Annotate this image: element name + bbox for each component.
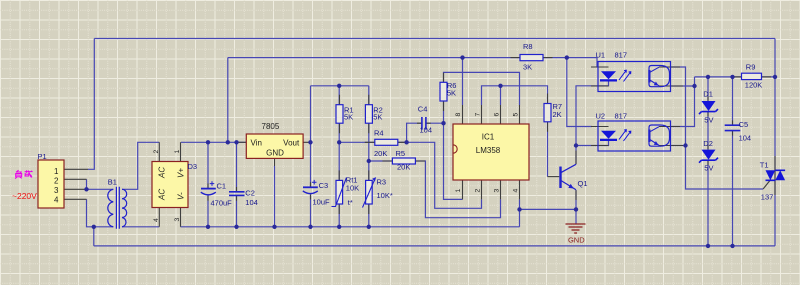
wire R5 left	[369, 160, 393, 162]
resistor R2	[365, 105, 372, 124]
svg-text:GND: GND	[568, 236, 585, 245]
zener D1	[702, 101, 716, 111]
capacitor C5	[725, 125, 741, 130]
zener D2	[702, 150, 716, 160]
optocoupler U1	[598, 62, 671, 92]
svg-text:817: 817	[615, 51, 628, 60]
wire R6 bottom	[443, 101, 445, 123]
wire R1 leads	[338, 86, 340, 181]
P1 pin stubs	[64, 169, 88, 199]
wire bottom rail	[94, 245, 775, 247]
svg-text:10uF: 10uF	[313, 198, 331, 207]
wire R6 top to pin5	[444, 72, 520, 105]
svg-text:AC: AC	[158, 189, 167, 201]
svg-text:R4: R4	[374, 129, 384, 138]
zener pin leads dark	[707, 96, 709, 165]
svg-text:10K: 10K	[346, 183, 359, 192]
capacitor pin leads dark	[208, 120, 733, 200]
wire U1 emitter node	[671, 77, 695, 86]
svg-text:2: 2	[54, 176, 59, 185]
Q1 base pin	[548, 176, 560, 178]
svg-text:T1: T1	[760, 161, 769, 170]
svg-text:10K*: 10K*	[377, 191, 393, 200]
svg-text:5K: 5K	[344, 113, 353, 122]
wire Vin net	[181, 141, 246, 143]
wire raw V+ rail y57	[228, 57, 567, 59]
svg-text:R8: R8	[523, 42, 533, 51]
U1 pin stubs	[591, 67, 683, 86]
resistor R7	[544, 104, 551, 122]
svg-text:U2: U2	[596, 112, 606, 121]
svg-text:1: 1	[455, 189, 462, 193]
T1 lead dark	[774, 156, 776, 195]
transistor Q1	[561, 164, 577, 190]
svg-text:Vin: Vin	[251, 139, 262, 148]
wire Q1 emitter down and gnd stem	[575, 190, 577, 224]
wire T1 column	[774, 77, 776, 246]
T1 gate diagonal	[763, 181, 770, 189]
svg-text:3: 3	[54, 186, 59, 195]
svg-text:2K: 2K	[553, 110, 562, 119]
svg-text:470uF: 470uF	[211, 199, 233, 208]
svg-text:C2: C2	[245, 188, 255, 197]
wire U2 emitter	[671, 145, 686, 147]
wire gnd bus	[181, 226, 520, 228]
svg-text:C5: C5	[739, 120, 749, 129]
wire P1 pin3 to B1	[87, 188, 114, 190]
capacitor C2	[229, 192, 245, 196]
wire C5 column	[732, 77, 734, 246]
svg-text:817: 817	[615, 112, 628, 121]
wire pin4 node to Q1 emitter	[520, 208, 577, 210]
svg-text:2: 2	[153, 150, 160, 154]
wire U2 cathode	[576, 141, 609, 146]
wire node A to pin2	[407, 142, 482, 208]
svg-text:V+: V+	[177, 168, 186, 178]
D3 pin stubs	[159, 142, 180, 227]
svg-text:LM358: LM358	[476, 146, 501, 155]
svg-text:V-: V-	[177, 192, 186, 200]
wire R5 right to pin3	[415, 161, 500, 218]
svg-text:4: 4	[54, 195, 59, 204]
resistor pin leads dark	[339, 58, 771, 214]
capacitor C1	[201, 181, 216, 195]
svg-text:137: 137	[761, 192, 774, 201]
wire R3 bottom	[368, 204, 370, 227]
wire C4 right to node B	[426, 122, 444, 124]
wire B1 primary bottom	[94, 227, 114, 246]
wire pin6 stub	[500, 86, 502, 105]
IC1 pin stubs	[463, 105, 520, 199]
wire R2 leads	[368, 86, 370, 181]
resistor R6	[440, 82, 447, 101]
svg-text:3K: 3K	[523, 62, 532, 71]
wire C1 leads	[207, 142, 209, 227]
wire R4 right to node A	[398, 141, 407, 143]
svg-text:5V: 5V	[704, 116, 713, 125]
svg-text:1: 1	[174, 150, 181, 154]
wire pin4 to gnd	[519, 199, 521, 226]
wire pin7 pin6 to R7	[482, 86, 548, 105]
triac T1	[766, 170, 776, 180]
svg-text:120K: 120K	[745, 80, 763, 89]
svg-text:104: 104	[420, 125, 433, 134]
potentiometer R3	[366, 180, 373, 204]
wire U1 collector to U2 emitter to T1 gate	[671, 67, 764, 189]
svg-text:Q1: Q1	[578, 179, 588, 188]
label 负载 (load)	[15, 170, 32, 178]
thermistor Rt1	[336, 180, 343, 204]
wire zener R9 node rail y77	[695, 76, 776, 78]
wire U2 collector up	[671, 86, 695, 127]
svg-text:AC: AC	[158, 167, 167, 179]
svg-text:D1: D1	[703, 89, 713, 98]
svg-text:R9: R9	[746, 63, 756, 72]
wire P1 pin4 down	[87, 199, 94, 227]
wire rail to Vin vertical	[227, 58, 229, 143]
svg-text:C4: C4	[418, 104, 428, 113]
resistor R4	[375, 139, 398, 145]
svg-text:5V: 5V	[704, 164, 713, 173]
wire right border down to node R9	[774, 39, 776, 77]
svg-text:7: 7	[475, 113, 482, 117]
Q1 collector emitter leads dark	[575, 151, 577, 201]
svg-text:104: 104	[245, 198, 258, 207]
svg-text:4: 4	[513, 189, 520, 193]
wire top rail	[94, 38, 775, 40]
op-amp IC1 LM358	[453, 124, 529, 180]
svg-text:20K: 20K	[374, 149, 387, 158]
wire 5V rail	[311, 85, 369, 87]
optocoupler U2	[598, 121, 671, 151]
wire 7805 GND down	[274, 166, 276, 227]
wire C2 leads	[236, 142, 238, 227]
svg-text:104: 104	[739, 134, 752, 143]
svg-text:7805: 7805	[262, 122, 280, 131]
svg-text:~220V: ~220V	[12, 191, 37, 201]
capacitor C3	[303, 180, 318, 194]
svg-text:5K: 5K	[447, 89, 456, 98]
wire Q1 collector up	[575, 146, 577, 165]
wire opto anode vertical	[567, 58, 592, 127]
wire U1 anode	[567, 58, 597, 67]
connector P1	[38, 160, 64, 208]
wire B1 sec top to D3 pin2	[122, 142, 159, 189]
svg-text:5K: 5K	[373, 113, 382, 122]
wire left border to P1 pin1	[88, 39, 94, 170]
svg-text:t*: t*	[348, 198, 353, 207]
ground GND	[566, 224, 586, 233]
svg-text:P1: P1	[38, 152, 47, 161]
svg-text:20K: 20K	[397, 163, 410, 172]
svg-text:R5: R5	[396, 149, 406, 158]
wire C3 leads	[310, 142, 312, 227]
svg-text:C3: C3	[319, 181, 329, 190]
svg-text:6: 6	[494, 113, 501, 117]
wire D1 D2 column	[707, 77, 709, 246]
svg-text:D2: D2	[703, 139, 713, 148]
svg-text:3: 3	[494, 189, 501, 193]
wire P1 pin2 jumper	[86, 179, 88, 189]
svg-text:4: 4	[153, 218, 160, 222]
7805 pin stubs	[237, 142, 311, 166]
wire C4 left	[407, 123, 422, 142]
svg-text:GND: GND	[266, 148, 284, 157]
resistor R9	[742, 73, 762, 79]
wire R4 left	[339, 141, 375, 143]
wire R7 bottom to Q1 base	[547, 122, 549, 177]
bridge rectifier D3	[152, 162, 188, 208]
svg-text:C1: C1	[217, 182, 227, 191]
U2 pin stubs	[591, 127, 683, 146]
resistor R5	[392, 158, 415, 164]
resistor R1	[336, 105, 343, 124]
svg-text:5: 5	[513, 113, 520, 117]
svg-text:D3: D3	[188, 162, 198, 171]
wire Rt1 bottom	[338, 204, 340, 227]
svg-text:R3: R3	[377, 177, 387, 186]
wire B1 sec bottom to D3 pin4	[122, 226, 159, 228]
svg-text:U1: U1	[596, 51, 606, 60]
resistor R8	[520, 55, 543, 61]
wire node B to pin1	[444, 123, 463, 199]
svg-text:2: 2	[475, 189, 482, 193]
svg-text:IC1: IC1	[482, 133, 495, 142]
svg-text:B1: B1	[108, 178, 117, 187]
wire U1 cathode to U2 cathode node	[576, 80, 609, 145]
svg-text:8: 8	[455, 113, 462, 117]
regulator 7805	[246, 134, 303, 158]
svg-text:3: 3	[174, 218, 181, 222]
capacitor C4	[422, 117, 426, 130]
wire Vout to 5V rail	[310, 86, 312, 143]
svg-text:Vout: Vout	[283, 139, 300, 148]
svg-text:1: 1	[54, 167, 59, 176]
wire IC pin8 to rail	[462, 58, 464, 105]
